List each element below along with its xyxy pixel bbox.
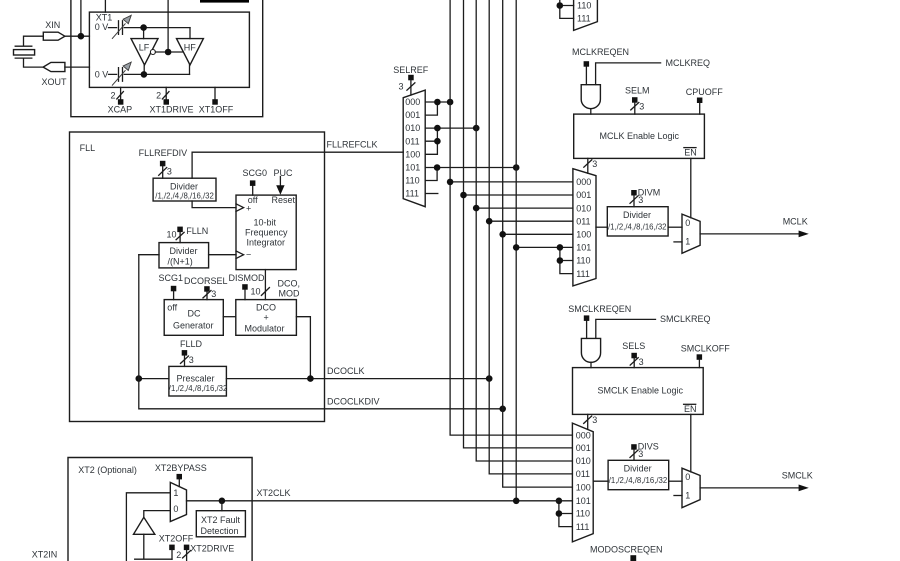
signal SMCLKREQEN [568, 304, 631, 339]
XT2 fault detection box [196, 511, 245, 537]
node MCLK 011 on line 4 [486, 218, 493, 225]
svg-text:EN: EN [684, 147, 697, 157]
svg-text:XT1OFF: XT1OFF [199, 104, 234, 114]
svg-text:111: 111 [576, 522, 590, 532]
svg-text:10: 10 [167, 230, 177, 240]
svg-text:0 V: 0 V [95, 22, 109, 32]
svg-text:10-bit: 10-bit [254, 218, 277, 228]
wire MCLK input 001 [464, 194, 573, 196]
svg-text:Divider: Divider [170, 182, 198, 192]
wire SELREF input 000 to XT1CLK line [425, 101, 450, 103]
svg-text:DCOCLKDIV: DCOCLKDIV [327, 397, 380, 407]
node 011 junction [434, 138, 441, 145]
svg-text:SMCLK Enable Logic: SMCLK Enable Logic [598, 386, 684, 396]
svg-text:PUC: PUC [274, 168, 294, 178]
svg-text:110: 110 [576, 256, 590, 266]
svg-text:3: 3 [638, 195, 643, 205]
svg-text:XT1DRIVE: XT1DRIVE [150, 104, 194, 114]
node SMCLK 101 junction [556, 498, 563, 505]
prescaler box [169, 366, 228, 396]
node MCLK 101 on line 6 [513, 244, 520, 251]
wire MCLK mux to divider [596, 226, 607, 228]
signal FLLREFDIV (3) [139, 148, 188, 178]
wire XOUT to XT1 box [65, 66, 90, 68]
signal SELREF (3) [393, 65, 429, 95]
svg-text:FLL: FLL [80, 143, 96, 153]
wire SMCLK inputs 110/111 elbow [559, 501, 573, 527]
wire SELREF input 101 to XT2CLK line [425, 167, 516, 169]
node SMCLK 110 junction [556, 510, 563, 517]
svg-text:101: 101 [576, 496, 591, 506]
svg-text:XT2OFF: XT2OFF [159, 533, 194, 543]
XT1 outer box [71, 0, 263, 117]
svg-text:Generator: Generator [173, 321, 214, 331]
capacitor C1 (top, variable) [95, 15, 190, 39]
svg-text:SMCLKOFF: SMCLKOFF [681, 344, 731, 354]
svg-text:MCLKREQEN: MCLKREQEN [572, 47, 629, 57]
svg-text:Prescaler: Prescaler [177, 373, 215, 383]
node XT2CLK fault tap [219, 498, 226, 505]
SMCLK enable logic box [573, 368, 704, 415]
wire MCLK input 100 [503, 233, 573, 235]
node bottom cap junction [141, 71, 148, 78]
svg-text:XT1: XT1 [96, 12, 113, 22]
svg-text:3: 3 [399, 82, 404, 92]
wire integrator to DCO (10, DCO/MOD bus) [251, 270, 301, 300]
svg-text:MOD: MOD [279, 289, 300, 299]
svg-text:000: 000 [405, 97, 420, 107]
signal SCG1 [159, 273, 184, 300]
capacitor C2 (bottom, variable) [95, 62, 190, 86]
wire MCLK input 101 [516, 246, 573, 248]
wire EN to SMCLK gate mux [690, 414, 692, 472]
crystal Y1 [14, 36, 44, 67]
svg-text:000: 000 [576, 430, 591, 440]
svg-text:XT2BYPASS: XT2BYPASS [155, 463, 207, 473]
op-amp U1 10-bit frequency integrator [236, 195, 296, 270]
signal SMCLKREQ [596, 314, 711, 338]
svg-text:2: 2 [156, 91, 161, 101]
svg-text:off: off [167, 302, 177, 312]
wire MCLK inputs 110/111 elbow [560, 247, 573, 273]
svg-text:MCLK Enable Logic: MCLK Enable Logic [600, 131, 680, 141]
svg-text:DCOCLK: DCOCLK [327, 366, 365, 376]
svg-text:Divider: Divider [170, 246, 198, 256]
svg-text:2: 2 [111, 91, 116, 101]
svg-text:110: 110 [577, 1, 591, 11]
mux SMCLK gate (0/1) [682, 468, 700, 508]
wire enable logic to MCLK mux select (3) [584, 158, 598, 173]
node 000 on line 1 [447, 99, 454, 106]
svg-text:/(N+1): /(N+1) [168, 257, 193, 267]
black bar (cut-off block above) [200, 0, 249, 3]
wire MCLK input 000 [450, 181, 573, 183]
MCLK enable logic box [574, 114, 705, 158]
wire XT2 osc output to mux 0 [144, 511, 171, 518]
svg-text:2: 2 [176, 550, 181, 560]
node ACLK 110 junction [557, 2, 564, 9]
node LF/HF junction [165, 49, 172, 56]
wire divider to integrator - input [209, 254, 236, 256]
svg-text:MCLKREQ: MCLKREQ [666, 58, 711, 68]
svg-text:DCO: DCO [256, 302, 276, 312]
divider FLLREFDIV box [153, 178, 216, 201]
svg-text:FLLD: FLLD [180, 339, 203, 349]
node DCOCLKDIV to bus line 5 [499, 406, 506, 413]
svg-text:/1,/2,/4,/8,/16,/32: /1,/2,/4,/8,/16,/32 [169, 384, 228, 393]
svg-text:/1,/2,/4,/8,/16,/32: /1,/2,/4,/8,/16,/32 [155, 192, 214, 201]
svg-text:111: 111 [405, 189, 419, 199]
svg-text:Divider: Divider [624, 464, 652, 474]
wire XT2 bypass input 1 [126, 493, 170, 561]
mux SMCLK source select [572, 423, 593, 542]
svg-text:101: 101 [405, 163, 420, 173]
mux XT2 bypass (0/1) [170, 482, 186, 521]
wire bus line 5 DCOCLKDIV [503, 0, 573, 487]
node 000/001 junction [434, 99, 441, 106]
svg-text:001: 001 [576, 443, 591, 453]
wire LF output to bottom rail [143, 64, 145, 74]
divider DIVS box [608, 460, 669, 489]
svg-text:−: − [246, 249, 251, 259]
wire divider to output mux [669, 480, 682, 482]
node XT2CLK on line 6 [513, 498, 520, 505]
signal DIVS (3) [630, 442, 659, 461]
svg-text:MCLK: MCLK [783, 217, 808, 227]
signal MODOSCREQEN (cut off) [590, 544, 663, 561]
svg-text:010: 010 [405, 123, 420, 133]
wire SMCLK output arrow [700, 471, 813, 492]
wire bus line 2 VLOCLK [464, 0, 573, 448]
divider /(N+1) box [159, 243, 209, 268]
svg-text:011: 011 [405, 136, 419, 146]
svg-text:DC: DC [188, 309, 201, 319]
node MCLK 110 junction [557, 257, 564, 264]
svg-text:001: 001 [576, 190, 591, 200]
svg-text:XIN: XIN [45, 20, 60, 30]
divider DIVM box [607, 207, 668, 236]
mux MCLK gate (0/1) [682, 214, 700, 253]
node 010 on line 3 [473, 125, 480, 132]
svg-text:3: 3 [189, 355, 194, 365]
pin XOUT [42, 62, 68, 87]
svg-text:Integrator: Integrator [247, 238, 286, 248]
svg-text:Frequency: Frequency [245, 228, 288, 238]
svg-text:111: 111 [576, 269, 590, 279]
svg-text:000: 000 [576, 177, 591, 187]
svg-text:XT2 (Optional): XT2 (Optional) [78, 465, 137, 475]
svg-text:3: 3 [592, 415, 597, 425]
svg-text:100: 100 [405, 149, 420, 159]
wire SMCLK mux to divider [593, 480, 608, 482]
svg-text:0: 0 [685, 218, 690, 228]
wire down into HF input [189, 28, 191, 39]
XT1 inner oscillator box [89, 12, 249, 87]
signal DISMOD [229, 273, 266, 300]
svg-text:100: 100 [576, 230, 591, 240]
svg-text:Detection: Detection [201, 526, 239, 536]
svg-text:Divider: Divider [623, 210, 651, 220]
wire MCLK input 011 [489, 220, 573, 222]
svg-text:SMCLKREQ: SMCLKREQ [660, 314, 711, 324]
svg-text:XT2IN: XT2IN [32, 550, 58, 560]
node DCO output junction [307, 375, 314, 382]
svg-text:110: 110 [576, 509, 590, 519]
signal XT2BYPASS [155, 463, 207, 486]
svg-text:FLLREFDIV: FLLREFDIV [139, 148, 188, 158]
wire bus line 4 DCOCLK [489, 0, 572, 474]
amplifier XT2 oscillator [134, 517, 155, 534]
svg-text:3: 3 [639, 101, 644, 111]
wire EN to MCLK gate mux [690, 158, 692, 217]
signal SELM (3) [625, 86, 650, 114]
svg-text:MODOSCREQEN: MODOSCREQEN [590, 544, 663, 554]
svg-text:DISMOD: DISMOD [229, 273, 266, 283]
signal XCAP (2) [108, 87, 133, 114]
svg-text:SCG1: SCG1 [159, 273, 184, 283]
svg-text:SELREF: SELREF [393, 65, 429, 75]
mux MCLK source select [573, 169, 596, 286]
signal XT1DRIVE (2) [150, 87, 194, 114]
wire feedback into divider /(N+1) [139, 254, 159, 256]
svg-text:010: 010 [576, 456, 591, 466]
wire XIN to XT1 box [65, 0, 90, 36]
svg-text:Modulator: Modulator [245, 323, 285, 333]
wire SELREF input 111 stub [425, 193, 438, 195]
signal FLLD (3) [180, 339, 203, 367]
svg-text:FLLN: FLLN [186, 226, 208, 236]
wire DCOCLKDIV [139, 255, 503, 409]
wire bus line 3 REFOCLK [476, 0, 572, 461]
node XIN junction [78, 33, 85, 40]
wire MCLK gate 1 stub [674, 241, 682, 243]
svg-text:1: 1 [685, 491, 690, 501]
wire SELREF inputs 011/100 elbow [425, 128, 437, 154]
svg-text:/1,/2,/4,/8,/16,/32: /1,/2,/4,/8,/16,/32 [608, 223, 667, 232]
svg-text:SCG0: SCG0 [243, 168, 268, 178]
wire DCOCLK [139, 366, 489, 379]
svg-text:DCO,: DCO, [278, 279, 301, 289]
wire MCLK output arrow [700, 217, 809, 238]
wire bus line 1 XT1CLK [450, 0, 572, 435]
svg-text:1: 1 [173, 488, 178, 498]
pin XIN [43, 20, 65, 40]
signal SELS (3) [622, 341, 645, 367]
wire divider to integrator + input [192, 201, 236, 208]
XT2 block box (cut off at bottom) [68, 458, 252, 561]
signal DCORSEL (3) [184, 276, 228, 300]
svg-text:+: + [246, 203, 251, 213]
signal XT1OFF [199, 87, 234, 114]
signal SCG0 [243, 168, 268, 195]
svg-text:3: 3 [211, 289, 216, 299]
svg-text:010: 010 [576, 203, 591, 213]
wire HF output to bottom rail [189, 64, 191, 74]
node 101 on line 6 [513, 164, 520, 171]
wire SELREF input 010 to REFOCLK line [425, 127, 476, 129]
svg-text:+: + [264, 312, 269, 322]
svg-text:0 V: 0 V [95, 70, 109, 80]
svg-text:SMCLK: SMCLK [782, 471, 813, 481]
wire bus line 6 XT2CLK [515, 0, 517, 501]
node MCLK 000 on line 1 [447, 179, 454, 186]
svg-text:SELM: SELM [625, 86, 650, 96]
svg-text:XT2CLK: XT2CLK [257, 488, 291, 498]
signal CPUOFF [686, 87, 724, 114]
svg-text:/1,/2,/4,/8,/16,/32: /1,/2,/4,/8,/16,/32 [609, 476, 668, 485]
and-gate U2 (MCLK request) [581, 85, 600, 114]
signal FLLN (10) [167, 226, 209, 243]
svg-text:XOUT: XOUT [42, 77, 68, 87]
node top cap junction [140, 24, 147, 31]
signal MCLKREQEN [572, 47, 629, 85]
signal XT2OFF [159, 533, 194, 559]
node MCLK 010 on line 3 [473, 205, 480, 212]
svg-text:3: 3 [167, 167, 172, 177]
svg-text:3: 3 [639, 357, 644, 367]
svg-text:111: 111 [577, 14, 591, 24]
node MCLK 101/110 junction [557, 244, 564, 251]
svg-text:SELS: SELS [622, 341, 645, 351]
node MCLK 001 on line 2 [460, 192, 467, 199]
svg-text:XCAP: XCAP [108, 104, 133, 114]
DCO + modulator box [236, 300, 297, 336]
wire LF bubble to HF [155, 51, 183, 53]
svg-text:100: 100 [576, 482, 591, 492]
svg-text:Reset: Reset [272, 195, 296, 205]
wire SELREF input 001 elbow [425, 102, 437, 115]
svg-text:001: 001 [405, 110, 420, 120]
svg-text:0: 0 [173, 504, 178, 514]
FLL block box [70, 132, 325, 422]
svg-text:10: 10 [251, 287, 261, 297]
signal DIVM (3) [630, 187, 660, 206]
svg-text:1: 1 [685, 237, 690, 247]
wire DCO output to DCOCLK rail [296, 317, 310, 379]
svg-text:CPUOFF: CPUOFF [686, 87, 724, 97]
svg-text:FLLREFCLK: FLLREFCLK [327, 139, 378, 149]
svg-text:XT2 Fault: XT2 Fault [201, 515, 241, 525]
signal XT2DRIVE (2) [176, 543, 234, 561]
mux ACLK (cut off at top) [574, 0, 598, 30]
DC generator box [164, 300, 223, 336]
mux SELREF (8:1 reference select) [403, 90, 425, 207]
svg-text:101: 101 [576, 243, 591, 253]
svg-text:011: 011 [576, 216, 590, 226]
svg-text:EN: EN [684, 404, 697, 414]
svg-text:011: 011 [576, 469, 590, 479]
svg-text:3: 3 [638, 449, 643, 459]
inversion bubble on LF output [150, 50, 155, 55]
wire below XT2 amplifier [135, 534, 172, 559]
wire XT2CLK [187, 488, 573, 501]
amplifier HF [177, 39, 204, 65]
svg-text:SMCLKREQEN: SMCLKREQEN [568, 304, 631, 314]
amplifier LF [131, 39, 158, 65]
node 101/110 junction [434, 164, 441, 171]
wire enable logic to SMCLK mux select (3) [584, 414, 598, 429]
signal SMCLKOFF [681, 344, 731, 368]
wire cap node to LF input [143, 28, 145, 39]
svg-text:HF: HF [184, 42, 196, 52]
node MCLK 100 on line 5 [499, 231, 506, 238]
svg-text:110: 110 [405, 176, 419, 186]
signal PUC (reset arrow) [274, 168, 294, 195]
node 010 junction [434, 125, 441, 132]
node prescaler output junction [136, 375, 143, 382]
svg-text:3: 3 [592, 159, 597, 169]
wire vertical into LF/HF node [167, 0, 169, 52]
svg-text:LF: LF [139, 43, 150, 53]
svg-text:0: 0 [685, 472, 690, 482]
svg-text:DCORSEL: DCORSEL [184, 276, 228, 286]
wire divider to output mux [668, 226, 682, 228]
signal MCLKREQ [596, 58, 710, 85]
wire DC generator to DCO [223, 316, 236, 318]
wire SMCLK gate 1 stub [674, 495, 682, 497]
svg-text:XT2DRIVE: XT2DRIVE [190, 543, 234, 553]
wire stub into box top [104, 0, 106, 12]
wire MCLK input 010 [476, 207, 573, 209]
wire fault detection tap [221, 501, 223, 511]
and-gate U3 (SMCLK request) [581, 338, 600, 367]
wire FLLREFCLK [192, 139, 403, 178]
wire ACLK mux 110/111 elbow [560, 0, 574, 18]
wire SELREF input 110 elbow [425, 168, 437, 181]
node DCOCLK to bus line 4 [486, 375, 493, 382]
